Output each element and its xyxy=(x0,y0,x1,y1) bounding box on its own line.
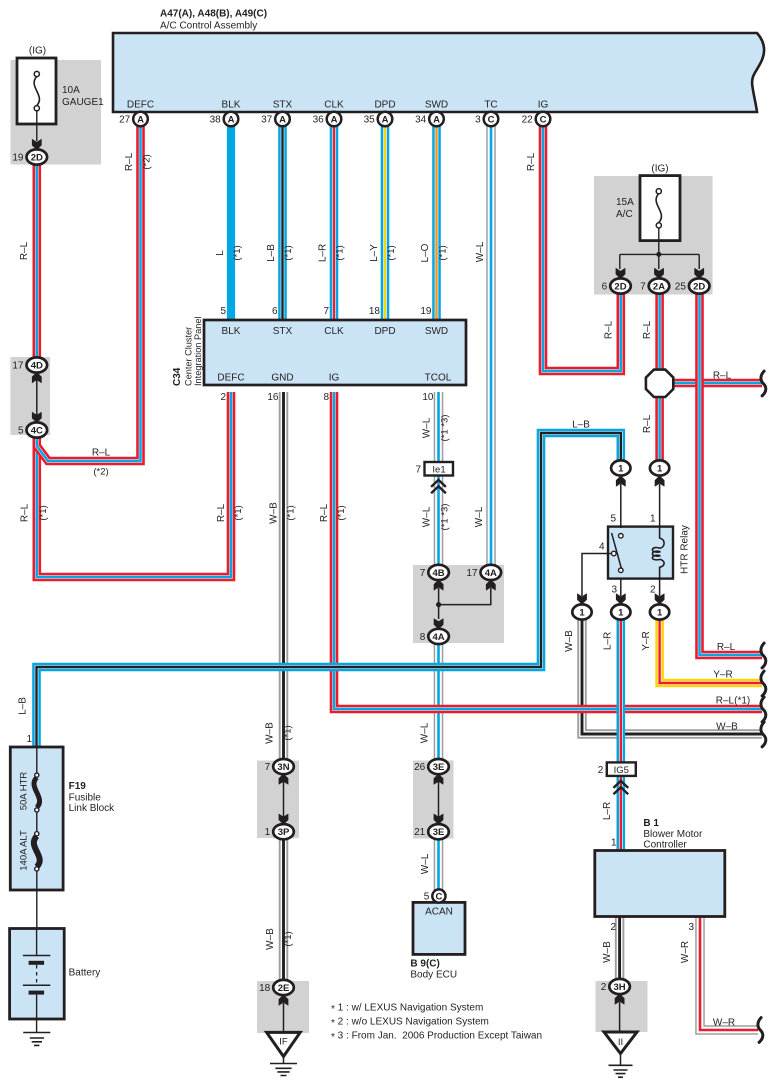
svg-text:* 1 : w/ LEXUS Navigation Syst: * 1 : w/ LEXUS Navigation System xyxy=(331,1003,483,1015)
wire R-L from 2A-7 down to octagon junction xyxy=(655,292,664,372)
svg-text:5: 5 xyxy=(424,892,430,903)
svg-text:26: 26 xyxy=(414,762,426,773)
svg-text:R–L: R–L xyxy=(526,152,537,171)
wire L-O from A/C SWD pin 34 to C34 pin 19 xyxy=(432,124,441,321)
svg-text:Center Cluster: Center Cluster xyxy=(184,327,194,386)
svg-text:A/C Control Assembly: A/C Control Assembly xyxy=(160,21,257,32)
svg-text:22: 22 xyxy=(522,115,534,126)
wire R-L from octagon junction down to relay connector 1 xyxy=(655,394,664,462)
svg-text:A: A xyxy=(228,114,235,125)
svg-text:R–L: R–L xyxy=(713,371,732,382)
svg-text:Fusible: Fusible xyxy=(69,793,102,804)
svg-text:STX: STX xyxy=(273,100,293,111)
connector 2D pin 6 xyxy=(602,278,631,293)
wire W-B from Blower Motor Controller pin 2 down to 3H xyxy=(615,916,625,981)
wire W-L from A/C TC pin 3 down to connector 4A-17 xyxy=(486,124,496,566)
octagon junction node xyxy=(646,370,673,397)
title A47 A48 A49 xyxy=(160,9,267,32)
svg-text:A: A xyxy=(382,114,389,125)
svg-text:CLK: CLK xyxy=(324,100,344,111)
svg-text:7: 7 xyxy=(420,568,426,579)
svg-text:DPD: DPD xyxy=(374,100,395,111)
connector 4D pin 17 xyxy=(12,357,47,372)
svg-text:W–R: W–R xyxy=(713,1018,735,1029)
C34 top pin numbers xyxy=(220,306,431,317)
svg-text:2: 2 xyxy=(601,982,607,993)
relay pin 5 lead and arrow into connector 1 xyxy=(616,476,626,529)
svg-text:1: 1 xyxy=(657,607,663,618)
svg-text:3N: 3N xyxy=(277,762,289,773)
svg-text:A: A xyxy=(137,114,144,125)
svg-text:W–B: W–B xyxy=(265,722,276,744)
connector 1 above relay pin 1 xyxy=(650,460,669,475)
fusible link 140A ALT xyxy=(34,832,40,890)
gray panel behind 2E connector xyxy=(257,981,309,1033)
svg-text:(*2): (*2) xyxy=(142,154,153,169)
svg-text:R–L: R–L xyxy=(124,152,135,171)
svg-text:3E: 3E xyxy=(433,827,445,838)
svg-text:3: 3 xyxy=(475,115,481,126)
wire L-B from A/C STX pin 37 to C34 pin 6 xyxy=(278,124,287,321)
svg-text:5: 5 xyxy=(610,514,616,525)
connector C pin 5 ACAN xyxy=(424,889,446,902)
gray panel behind 3E connectors xyxy=(413,761,454,839)
right edge horizontal wire labels xyxy=(713,371,750,733)
svg-text:R–L: R–L xyxy=(319,503,330,522)
svg-text:L–O: L–O xyxy=(420,243,431,262)
Battery label xyxy=(69,968,101,979)
svg-text:6: 6 xyxy=(602,282,608,293)
svg-text:A: A xyxy=(433,114,440,125)
fuse 15A A/C xyxy=(640,176,680,241)
svg-text:SWD: SWD xyxy=(425,100,448,111)
L-R label near B1 xyxy=(602,802,613,820)
svg-text:1: 1 xyxy=(618,607,624,618)
HTR Relay box xyxy=(608,527,673,579)
svg-text:(IG): (IG) xyxy=(651,164,668,175)
fuse 10A GAUGE1 xyxy=(17,58,56,141)
svg-text:* 3 : From Jan. 2006 Producti: * 3 : From Jan. 2006 Production Except T… xyxy=(331,1031,542,1043)
connector 1 below relay pin 2 xyxy=(650,604,669,619)
gray panel behind 15A A/C fuse xyxy=(594,176,713,295)
svg-text:4A: 4A xyxy=(485,568,497,579)
C34 bottom pin names xyxy=(217,373,451,384)
A/C assembly pin names xyxy=(127,100,549,111)
svg-text:(*1): (*1) xyxy=(283,931,294,946)
svg-text:ACAN: ACAN xyxy=(425,907,453,918)
svg-text:C: C xyxy=(435,891,442,902)
svg-text:A: A xyxy=(331,114,338,125)
svg-text:4C: 4C xyxy=(31,425,43,436)
gray panel behind 4D/4C connectors xyxy=(10,357,50,435)
arrow into connector 3H and line to ground II xyxy=(615,994,625,1034)
L-B label left vertical xyxy=(18,697,29,715)
wire R-L from 2D-25 down and right to break xyxy=(700,292,763,655)
wire R-L from A/C DEFC pin 27 down, left to 4C branch (*2) xyxy=(37,124,141,461)
svg-text:25: 25 xyxy=(675,282,687,293)
svg-text:A: A xyxy=(279,114,286,125)
connector 3H pin 2 xyxy=(601,979,630,994)
ACAN / Body ECU labels xyxy=(410,907,457,981)
wire L solid from A/C BLK pin 38 to C34 pin 5 xyxy=(227,124,235,321)
C34 Center Cluster Integration Panel box xyxy=(204,320,466,385)
relay pin 4 lead and arrow into connector 1 xyxy=(577,554,608,605)
connector 4A pin 8 xyxy=(420,629,449,644)
svg-text:A47(A), A48(B), A49(C): A47(A), A48(B), A49(C) xyxy=(160,9,267,20)
Battery box xyxy=(10,929,65,1020)
B1 labels xyxy=(610,818,703,933)
wire W-B from relay pin 4 connector down and right to break xyxy=(582,618,762,734)
svg-text:2D: 2D xyxy=(614,281,626,292)
svg-text:W–L: W–L xyxy=(422,506,433,527)
label (IG) right fuse xyxy=(651,164,668,175)
svg-text:C: C xyxy=(540,114,547,125)
svg-text:38: 38 xyxy=(210,115,222,126)
connector A pin 37 STX xyxy=(261,112,290,127)
label (IG) left fuse xyxy=(29,46,46,57)
svg-text:* 2 : w/o LEXUS Navigation Sys: * 2 : w/o LEXUS Navigation System xyxy=(331,1017,489,1029)
relay pin number labels xyxy=(599,514,656,596)
svg-text:7: 7 xyxy=(415,465,421,476)
svg-text:BLK: BLK xyxy=(222,326,241,337)
connector A pin 27 DEFC xyxy=(119,112,148,127)
svg-text:(*1): (*1) xyxy=(336,505,347,520)
wire L-R from relay pin 3 connector down to IG5 xyxy=(616,618,625,763)
connector 2D pin 25 xyxy=(675,278,710,293)
connector A pin 34 SWD xyxy=(415,112,444,127)
svg-text:18: 18 xyxy=(259,983,271,994)
svg-text:L–Y: L–Y xyxy=(369,244,380,262)
ground point IF xyxy=(267,1032,301,1075)
svg-text:W–R: W–R xyxy=(680,941,691,963)
svg-text:B 9(C): B 9(C) xyxy=(410,959,439,970)
svg-text:19: 19 xyxy=(420,306,432,317)
svg-text:2D: 2D xyxy=(693,281,705,292)
svg-text:8: 8 xyxy=(420,632,426,643)
svg-text:C: C xyxy=(488,114,495,125)
svg-text:Controller: Controller xyxy=(643,840,687,851)
connector A pin 35 DPD xyxy=(364,112,393,127)
svg-text:4D: 4D xyxy=(31,360,43,371)
gray panel behind 3N/3P connectors xyxy=(257,761,299,839)
battery ground xyxy=(23,1019,50,1045)
svg-text:Battery: Battery xyxy=(69,968,101,979)
svg-text:8: 8 xyxy=(323,392,329,403)
arrow into connector 2E and line to ground IF xyxy=(279,995,289,1034)
B9 Body ECU ACAN box xyxy=(413,902,465,954)
svg-text:W–L: W–L xyxy=(420,722,431,743)
connector 3N pin 7 xyxy=(265,759,294,774)
svg-text:GND: GND xyxy=(271,373,293,384)
svg-text:19: 19 xyxy=(12,153,24,164)
wire L-R from IG5 down to Blower Motor Controller pin 1 xyxy=(616,775,625,851)
break symbol on R-L(*1) at right edge xyxy=(761,697,766,722)
wire W-L from connector 3E-21 down to Body ECU ACAN xyxy=(434,837,444,891)
svg-text:W–L: W–L xyxy=(475,241,486,262)
svg-text:15A: 15A xyxy=(616,197,634,208)
svg-text:(*2): (*2) xyxy=(93,467,108,478)
feed lines from 15A fuse to connectors 2D/2A/2D xyxy=(620,228,699,269)
svg-text:(*1 *3): (*1 *3) xyxy=(440,504,451,531)
connector C pin 22 IG xyxy=(522,112,551,127)
svg-text:L–R: L–R xyxy=(318,244,329,262)
W-B label near 3H xyxy=(602,941,613,963)
connector 2A pin 7 xyxy=(640,278,669,293)
svg-text:Integration Panel: Integration Panel xyxy=(193,317,203,386)
wire W-R from Blower Motor Controller pin 3 down and right to break xyxy=(700,916,758,1030)
wire labels below C34 xyxy=(20,415,486,531)
svg-text:B 1: B 1 xyxy=(643,818,659,829)
HTR relay internals: switch contacts and coil xyxy=(608,527,664,579)
wire R-L from A/C IG pin 22 down, right, up into 2D-6 xyxy=(543,124,621,371)
connector 3E pin 26 xyxy=(414,759,449,774)
connector 2D pin 19 xyxy=(12,149,47,164)
svg-text:R–L: R–L xyxy=(717,642,736,653)
svg-text:W–B: W–B xyxy=(269,502,280,524)
svg-text:W–L: W–L xyxy=(474,506,485,527)
svg-text:IG: IG xyxy=(329,373,340,384)
svg-text:3P: 3P xyxy=(278,827,290,838)
svg-text:Body ECU: Body ECU xyxy=(410,970,457,981)
svg-text:3H: 3H xyxy=(614,982,626,993)
svg-text:DPD: DPD xyxy=(374,326,395,337)
svg-text:4: 4 xyxy=(599,542,605,553)
relay pin 1 lead and arrow into connector 1 xyxy=(655,476,665,529)
svg-text:16: 16 xyxy=(267,392,279,403)
svg-text:(*1): (*1) xyxy=(335,245,346,260)
wire L-B from relay connector up, left, down, left to F19 pin 1 xyxy=(37,433,621,747)
A/C Control Assembly box A47/A48/A49 xyxy=(113,33,764,112)
svg-text:STX: STX xyxy=(273,326,293,337)
svg-text:36: 36 xyxy=(313,115,325,126)
break symbol on Y-R at right edge xyxy=(761,671,766,696)
svg-text:2E: 2E xyxy=(278,983,290,994)
svg-text:(*1): (*1) xyxy=(232,245,243,260)
link from F19 to Battery xyxy=(36,890,38,929)
svg-text:A/C: A/C xyxy=(616,209,633,220)
svg-text:BLK: BLK xyxy=(222,100,241,111)
svg-text:6: 6 xyxy=(272,306,278,317)
svg-text:L–B: L–B xyxy=(572,420,590,431)
svg-text:L–R: L–R xyxy=(603,632,614,650)
svg-text:2A: 2A xyxy=(653,281,665,292)
connector 4B pin 7 xyxy=(420,565,449,580)
svg-text:7: 7 xyxy=(640,282,646,293)
svg-text:(*1): (*1) xyxy=(283,725,294,740)
connector Ie1 pin 7 xyxy=(415,462,453,493)
C34 name rotated xyxy=(172,317,203,386)
svg-text:35: 35 xyxy=(364,115,376,126)
svg-text:5: 5 xyxy=(220,306,226,317)
svg-text:1: 1 xyxy=(26,734,32,745)
battery symbol xyxy=(23,929,50,1020)
arrows between connectors 3N and 3P xyxy=(279,774,289,825)
W-L chain labels xyxy=(420,722,432,874)
svg-text:1: 1 xyxy=(579,607,585,618)
svg-text:Y–R: Y–R xyxy=(641,631,652,650)
connector 3P pin 1 xyxy=(265,824,294,839)
svg-text:10A: 10A xyxy=(62,85,80,96)
wire R-L(*1) from C34 IG pin 8 down and right to break xyxy=(334,392,762,709)
svg-text:1: 1 xyxy=(611,838,617,849)
svg-text:(*1 *3): (*1 *3) xyxy=(440,415,451,442)
connector 2E pin 18 xyxy=(259,980,294,995)
svg-text:(IG): (IG) xyxy=(29,46,46,57)
arrows between connectors 3E-26 and 3E-21 xyxy=(434,774,444,825)
wire W-L from C34 TCOL pin 10 down to Ie1 xyxy=(434,392,444,463)
svg-text:4B: 4B xyxy=(433,568,445,579)
svg-text:W–B: W–B xyxy=(564,630,575,652)
label 15A A/C xyxy=(616,197,634,220)
svg-text:R–L: R–L xyxy=(20,503,31,522)
F19 Fusible Link Block box xyxy=(10,747,63,890)
svg-text:4A: 4A xyxy=(433,632,445,643)
svg-text:L: L xyxy=(215,250,226,256)
right column wire labels xyxy=(604,320,654,433)
wire Y-R from relay pin 2 connector down and right to break xyxy=(660,618,762,683)
break symbol on R-L at right edge xyxy=(761,643,766,668)
svg-text:W–B: W–B xyxy=(602,941,613,963)
svg-text:R–L: R–L xyxy=(642,414,653,433)
break symbol on W-R at right edge xyxy=(758,1018,763,1043)
gray panel behind 10A GAUGE1 fuse xyxy=(11,60,102,165)
connector C pin 3 TC xyxy=(475,112,498,127)
F19 labels xyxy=(19,734,116,871)
svg-text:27: 27 xyxy=(119,115,131,126)
gray panel behind 4B/4A junction connectors xyxy=(413,565,504,643)
svg-text:(*1): (*1) xyxy=(438,245,449,260)
connector 1 below relay pin 3 xyxy=(611,604,630,619)
connector A pin 36 CLK xyxy=(313,112,342,127)
svg-text:1: 1 xyxy=(657,463,663,474)
svg-text:Link Block: Link Block xyxy=(69,803,116,814)
svg-text:2: 2 xyxy=(220,392,226,403)
wire R-L from connector 4C down and to C34 DEFC pin 2 xyxy=(37,392,231,577)
connector 4C pin 5 xyxy=(18,422,47,437)
gray panel behind 3H connector xyxy=(596,981,648,1032)
fusible link 50A HTR xyxy=(34,747,40,832)
wire W-B from C34 GND pin 16 down to connector 3N xyxy=(279,392,289,761)
svg-text:(*1): (*1) xyxy=(38,505,49,520)
arrow into connector 2D-19 xyxy=(32,139,42,150)
svg-text:1: 1 xyxy=(650,514,656,525)
C34 top pin names xyxy=(222,326,449,337)
arrows into connectors 2D-6 2A-7 2D-25 xyxy=(616,268,705,279)
B1 Blower Motor Controller box xyxy=(595,851,725,917)
break symbol on W-B at right edge xyxy=(761,722,766,747)
ground point II xyxy=(604,1032,637,1077)
svg-text:DEFC: DEFC xyxy=(127,100,154,111)
svg-text:1: 1 xyxy=(265,827,271,838)
svg-text:Y–R: Y–R xyxy=(713,670,732,681)
svg-text:R–L: R–L xyxy=(604,320,615,339)
svg-text:IG: IG xyxy=(538,100,549,111)
junction lines and arrows for connectors 4B/4A xyxy=(434,579,496,629)
svg-text:SWD: SWD xyxy=(425,326,448,337)
svg-text:3E: 3E xyxy=(433,762,445,773)
svg-text:(*1): (*1) xyxy=(283,245,294,260)
arrows between connectors 4D and 4C xyxy=(32,372,42,423)
svg-text:Ie1: Ie1 xyxy=(432,465,445,476)
svg-text:3: 3 xyxy=(688,922,694,933)
svg-text:(*1): (*1) xyxy=(286,505,297,520)
svg-text:R–L(*1): R–L(*1) xyxy=(716,696,750,707)
svg-text:HTR Relay: HTR Relay xyxy=(680,525,691,574)
connector 1 below relay pin 4 xyxy=(572,604,591,619)
connector 4A pin 17 xyxy=(466,565,501,580)
relay pin 2 lead and arrow into connector 1 xyxy=(655,579,665,605)
break symbol on R-L at right edge (octagon feed) xyxy=(761,371,766,396)
wire L-R from A/C CLK pin 36 to C34 pin 7 xyxy=(330,124,339,321)
wire W-B from connector 3P down to connector 2E xyxy=(279,837,289,983)
wire R-L from octagon junction right to break xyxy=(671,379,762,388)
connector A pin 38 BLK xyxy=(210,112,239,127)
label 10A GAUGE1 xyxy=(62,85,104,108)
svg-text:2: 2 xyxy=(598,765,604,776)
svg-text:II: II xyxy=(618,1037,623,1048)
svg-text:R–L: R–L xyxy=(642,320,653,339)
svg-text:R–L: R–L xyxy=(216,503,227,522)
wire labels between A/C assembly and C34 xyxy=(19,152,537,262)
footnotes xyxy=(331,1003,542,1043)
relay pin 3 lead and arrow into connector 1 xyxy=(616,579,626,605)
W-R labels xyxy=(680,941,735,1029)
svg-text:W–B: W–B xyxy=(265,928,276,950)
svg-text:7: 7 xyxy=(265,762,271,773)
svg-text:2: 2 xyxy=(610,922,616,933)
svg-text:(*1): (*1) xyxy=(386,245,397,260)
svg-text:2D: 2D xyxy=(31,152,43,163)
svg-text:18: 18 xyxy=(369,306,381,317)
svg-text:17: 17 xyxy=(12,361,24,372)
svg-text:C34: C34 xyxy=(172,367,183,386)
svg-text:W–L: W–L xyxy=(422,417,433,438)
svg-text:DEFC: DEFC xyxy=(217,373,244,384)
svg-text:W–L: W–L xyxy=(420,853,431,874)
svg-text:7: 7 xyxy=(323,306,329,317)
svg-text:CLK: CLK xyxy=(324,326,344,337)
wire W-L from connector 4A-8 down to connector 3E-26 xyxy=(434,642,444,761)
connector 1 above relay pin 5 xyxy=(611,460,630,475)
svg-text:W–B: W–B xyxy=(716,722,738,733)
connector IG5 pin 2 xyxy=(598,762,636,794)
HTR Relay name rotated xyxy=(680,525,691,574)
svg-text:Blower Motor: Blower Motor xyxy=(643,829,703,840)
svg-text:37: 37 xyxy=(261,115,273,126)
svg-text:1: 1 xyxy=(618,463,624,474)
svg-text:IG5: IG5 xyxy=(614,765,629,776)
svg-text:L–B: L–B xyxy=(18,697,29,715)
svg-text:17: 17 xyxy=(466,568,478,579)
wire L-Y from A/C DPD pin 35 to C34 pin 18 xyxy=(381,124,390,321)
R-L (*2) branch labels xyxy=(92,448,111,478)
svg-text:140A ALT: 140A ALT xyxy=(19,830,30,871)
svg-text:5: 5 xyxy=(18,426,24,437)
connector 3E pin 21 xyxy=(414,824,449,839)
svg-text:R–L: R–L xyxy=(19,241,30,260)
svg-text:R–L: R–L xyxy=(92,448,111,459)
svg-text:L–B: L–B xyxy=(266,244,277,262)
svg-text:GAUGE1: GAUGE1 xyxy=(62,97,104,108)
wire R-L from fuse 2D-19 to connector 4D xyxy=(32,161,41,359)
svg-text:50A HTR: 50A HTR xyxy=(19,772,30,811)
L-B label above horizontal run xyxy=(572,420,590,431)
svg-text:L–R: L–R xyxy=(602,802,613,820)
svg-text:F19: F19 xyxy=(69,781,87,792)
svg-text:10: 10 xyxy=(422,392,434,403)
svg-text:TC: TC xyxy=(484,100,497,111)
GND chain labels xyxy=(265,722,295,950)
